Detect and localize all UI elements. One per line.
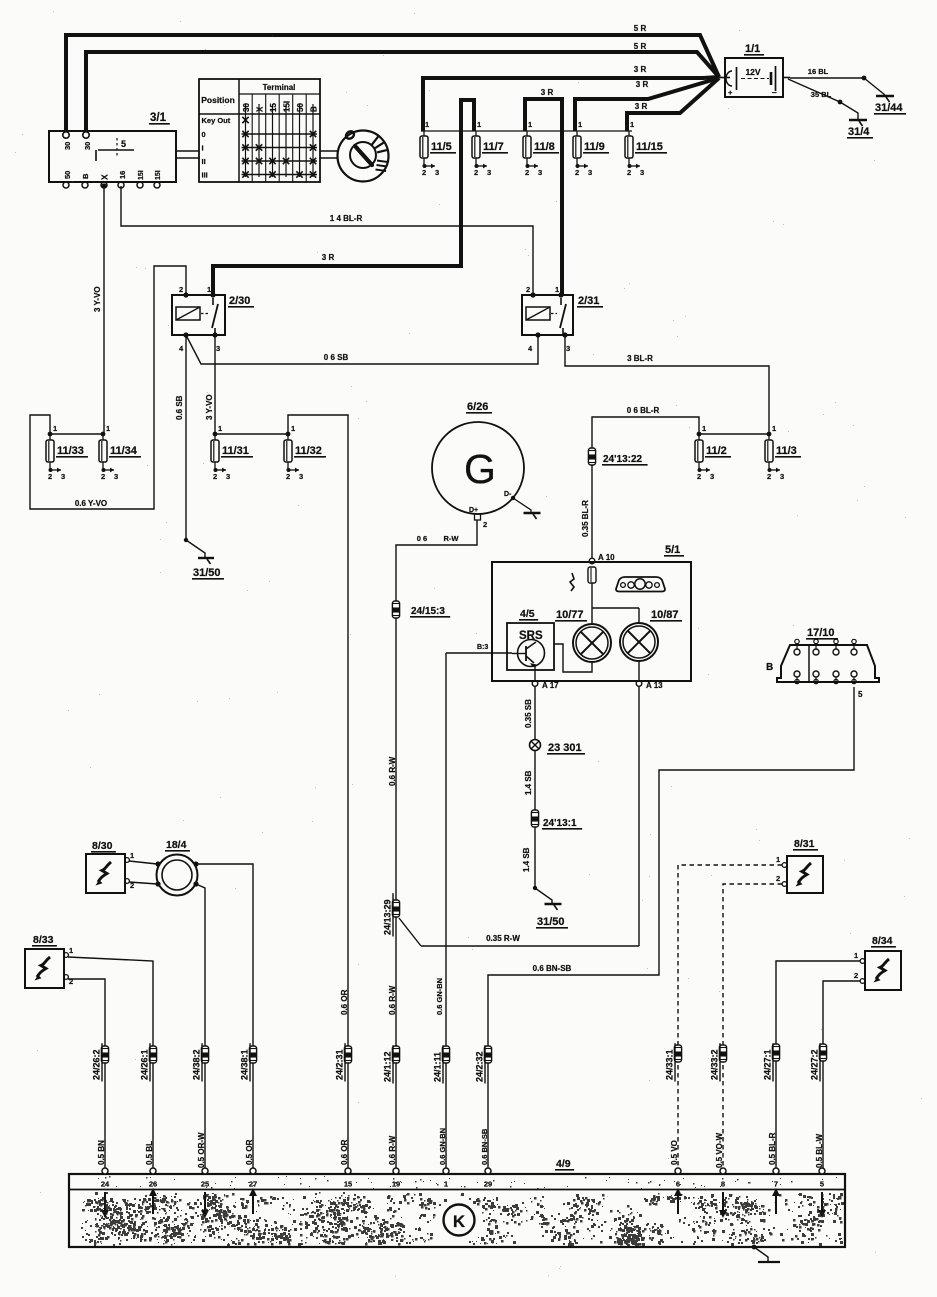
svg-text:3: 3 xyxy=(588,168,592,177)
svg-text:2: 2 xyxy=(697,472,701,481)
svg-text:3: 3 xyxy=(216,344,220,353)
svg-text:0 6 BL-R: 0 6 BL-R xyxy=(627,406,660,415)
svg-text:24/27:1: 24/27:1 xyxy=(763,1049,773,1080)
svg-text:24/26:1: 24/26:1 xyxy=(140,1049,150,1080)
svg-text:3: 3 xyxy=(640,168,644,177)
svg-text:2/30: 2/30 xyxy=(229,295,250,307)
svg-text:0.6 GN-BN: 0.6 GN-BN xyxy=(435,978,444,1015)
svg-text:G: G xyxy=(464,446,496,492)
svg-text:24'13:1: 24'13:1 xyxy=(543,818,577,829)
svg-text:24: 24 xyxy=(101,1180,110,1189)
svg-text:12V: 12V xyxy=(745,67,760,77)
svg-text:6: 6 xyxy=(676,1180,680,1189)
svg-text:8/34: 8/34 xyxy=(872,935,893,947)
svg-text:1/1: 1/1 xyxy=(745,43,760,55)
svg-text:2: 2 xyxy=(575,168,579,177)
svg-text:1.4 SB: 1.4 SB xyxy=(524,770,533,795)
svg-text:0.6 R-W: 0.6 R-W xyxy=(388,985,397,1015)
svg-text:1: 1 xyxy=(53,424,57,433)
svg-text:2: 2 xyxy=(48,472,52,481)
svg-text:0.35 BL-R: 0.35 BL-R xyxy=(581,500,590,537)
svg-text:24/15:3: 24/15:3 xyxy=(411,606,445,617)
svg-text:0: 0 xyxy=(202,130,206,139)
svg-text:15I: 15I xyxy=(283,101,292,112)
svg-text:A 17: A 17 xyxy=(542,681,559,690)
svg-text:24/13:29: 24/13:29 xyxy=(383,899,393,935)
svg-text:0.5 VO-W: 0.5 VO-W xyxy=(715,1132,724,1168)
svg-text:0.5 OR: 0.5 OR xyxy=(245,1139,254,1165)
svg-text:11/9: 11/9 xyxy=(584,141,605,153)
svg-text:0.6 BN-SB: 0.6 BN-SB xyxy=(533,964,572,973)
svg-text:2: 2 xyxy=(627,168,631,177)
svg-text:B:3: B:3 xyxy=(477,644,488,651)
svg-text:24/26:2: 24/26:2 xyxy=(92,1049,102,1080)
svg-text:2: 2 xyxy=(474,168,478,177)
svg-text:1 4 BL-R: 1 4 BL-R xyxy=(330,214,363,223)
svg-text:0.5 BL: 0.5 BL xyxy=(145,1141,154,1165)
svg-text:1: 1 xyxy=(130,851,134,860)
svg-text:3: 3 xyxy=(435,168,439,177)
svg-text:5: 5 xyxy=(858,690,863,699)
svg-text:50: 50 xyxy=(296,103,305,112)
svg-text:1: 1 xyxy=(425,120,429,129)
svg-text:1: 1 xyxy=(69,946,73,955)
svg-text:5 R: 5 R xyxy=(634,42,647,51)
svg-text:8/30: 8/30 xyxy=(92,840,113,852)
svg-text:Position: Position xyxy=(201,95,235,105)
svg-text:I: I xyxy=(202,144,204,153)
svg-text:5: 5 xyxy=(121,139,126,149)
svg-text:0.5 BL-R: 0.5 BL-R xyxy=(768,1132,777,1165)
svg-text:0.5 VO: 0.5 VO xyxy=(670,1140,679,1165)
svg-text:31/50: 31/50 xyxy=(193,567,221,579)
svg-text:1.4 SB: 1.4 SB xyxy=(522,847,531,872)
svg-text:1: 1 xyxy=(477,120,481,129)
svg-text:8: 8 xyxy=(721,1180,725,1189)
svg-text:31/50: 31/50 xyxy=(537,916,565,928)
svg-text:23 301: 23 301 xyxy=(548,742,582,754)
svg-text:0.6 GN-BN: 0.6 GN-BN xyxy=(438,1128,447,1165)
svg-text:31/44: 31/44 xyxy=(875,102,903,114)
svg-text:15I: 15I xyxy=(155,170,162,180)
svg-text:B: B xyxy=(310,106,319,112)
svg-text:B: B xyxy=(766,662,773,673)
svg-text:1: 1 xyxy=(106,424,110,433)
svg-text:0.6 R-W: 0.6 R-W xyxy=(388,1135,397,1165)
svg-text:A 10: A 10 xyxy=(598,553,615,562)
svg-text:24'13:22: 24'13:22 xyxy=(603,454,643,465)
svg-text:K: K xyxy=(453,1212,466,1231)
svg-text:X: X xyxy=(100,174,110,180)
svg-text:1: 1 xyxy=(218,424,222,433)
svg-text:0.35 SB: 0.35 SB xyxy=(524,699,533,728)
svg-text:II: II xyxy=(202,157,206,166)
svg-text:11/8: 11/8 xyxy=(534,141,555,153)
svg-text:0.5 OR-W: 0.5 OR-W xyxy=(197,1132,206,1168)
svg-text:A 13: A 13 xyxy=(646,681,663,690)
svg-text:3 R: 3 R xyxy=(541,88,554,97)
svg-text:0.6 OR: 0.6 OR xyxy=(340,1139,349,1165)
svg-text:31/4: 31/4 xyxy=(848,126,870,138)
svg-text:2: 2 xyxy=(526,285,530,294)
svg-text:2: 2 xyxy=(767,472,771,481)
svg-text:3: 3 xyxy=(61,472,65,481)
svg-text:0.6 OR: 0.6 OR xyxy=(340,989,349,1015)
svg-text:24/2:31: 24/2:31 xyxy=(335,1049,345,1080)
svg-text:2: 2 xyxy=(286,472,290,481)
svg-text:0.35 R-W: 0.35 R-W xyxy=(486,934,520,943)
svg-text:8/33: 8/33 xyxy=(33,934,54,946)
svg-text:III: III xyxy=(202,171,208,180)
svg-text:3 R: 3 R xyxy=(634,65,647,74)
svg-text:3 Y-VO: 3 Y-VO xyxy=(205,394,214,420)
svg-text:2: 2 xyxy=(422,168,426,177)
svg-text:3: 3 xyxy=(226,472,230,481)
svg-text:30: 30 xyxy=(63,142,72,150)
svg-text:3 BL-R: 3 BL-R xyxy=(627,354,653,363)
svg-text:3 R: 3 R xyxy=(636,80,649,89)
svg-text:0.5 BL-W: 0.5 BL-W xyxy=(815,1133,824,1168)
svg-text:3: 3 xyxy=(710,472,714,481)
svg-text:15: 15 xyxy=(269,103,278,112)
svg-text:3/1: 3/1 xyxy=(150,112,167,124)
svg-text:17/10: 17/10 xyxy=(807,627,835,639)
svg-text:24/1:12: 24/1:12 xyxy=(383,1051,393,1082)
svg-text:29: 29 xyxy=(484,1180,492,1189)
svg-text:D-: D- xyxy=(504,491,512,498)
svg-text:11/7: 11/7 xyxy=(483,141,504,153)
svg-text:2: 2 xyxy=(854,971,858,980)
svg-text:24/2:32: 24/2:32 xyxy=(475,1051,485,1082)
svg-text:Key Out: Key Out xyxy=(202,116,231,125)
svg-text:3 R: 3 R xyxy=(322,253,335,262)
svg-text:0 6: 0 6 xyxy=(417,534,427,543)
svg-text:26: 26 xyxy=(149,1180,157,1189)
svg-text:2: 2 xyxy=(101,472,105,481)
svg-text:1: 1 xyxy=(772,424,776,433)
svg-text:10/87: 10/87 xyxy=(651,609,679,621)
svg-text:24/33:1: 24/33:1 xyxy=(665,1049,675,1080)
svg-text:0.6 BN-SB: 0.6 BN-SB xyxy=(480,1128,489,1165)
svg-text:1: 1 xyxy=(854,951,858,960)
svg-text:3: 3 xyxy=(566,344,570,353)
svg-text:2: 2 xyxy=(483,520,487,529)
svg-text:4/5: 4/5 xyxy=(520,608,535,620)
svg-text:30: 30 xyxy=(83,142,92,150)
svg-text:1: 1 xyxy=(630,120,634,129)
svg-text:1: 1 xyxy=(444,1180,448,1189)
svg-text:0 6 SB: 0 6 SB xyxy=(324,353,349,362)
svg-text:Terminal: Terminal xyxy=(263,83,296,92)
svg-text:18/4: 18/4 xyxy=(166,839,187,851)
svg-text:24/27:2: 24/27:2 xyxy=(810,1049,820,1080)
svg-text:11/33: 11/33 xyxy=(57,445,84,457)
svg-text:11/2: 11/2 xyxy=(706,445,727,457)
svg-text:2/31: 2/31 xyxy=(578,295,599,307)
svg-text:19: 19 xyxy=(392,1180,400,1189)
svg-text:R-W: R-W xyxy=(444,534,460,543)
svg-text:1: 1 xyxy=(528,120,532,129)
svg-text:10/77: 10/77 xyxy=(556,609,584,621)
svg-text:–: – xyxy=(772,87,777,97)
svg-text:24/38:1: 24/38:1 xyxy=(240,1049,250,1080)
svg-text:0.6 SB: 0.6 SB xyxy=(175,395,184,420)
svg-text:2: 2 xyxy=(776,874,780,883)
svg-text:0.6 Y-VO: 0.6 Y-VO xyxy=(75,499,107,508)
svg-text:15I: 15I xyxy=(138,170,145,180)
svg-text:27: 27 xyxy=(249,1180,257,1189)
svg-text:50: 50 xyxy=(63,171,72,179)
svg-text:11/3: 11/3 xyxy=(776,445,797,457)
svg-text:24/33:2: 24/33:2 xyxy=(710,1049,720,1080)
svg-text:B: B xyxy=(81,173,90,179)
svg-text:15: 15 xyxy=(344,1180,352,1189)
svg-text:16 BL: 16 BL xyxy=(808,67,829,76)
svg-text:11/34: 11/34 xyxy=(110,445,138,457)
svg-text:7: 7 xyxy=(774,1180,778,1189)
svg-text:4/9: 4/9 xyxy=(556,1158,571,1170)
svg-text:+: + xyxy=(728,88,733,97)
svg-text:1: 1 xyxy=(702,424,706,433)
svg-text:5 R: 5 R xyxy=(634,24,647,33)
svg-text:5: 5 xyxy=(820,1180,824,1189)
svg-text:3: 3 xyxy=(487,168,491,177)
svg-text:2: 2 xyxy=(213,472,217,481)
svg-text:3: 3 xyxy=(114,472,118,481)
svg-text:3 Y-VO: 3 Y-VO xyxy=(93,286,102,312)
svg-text:25: 25 xyxy=(201,1180,209,1189)
svg-text:8/31: 8/31 xyxy=(794,838,815,850)
svg-text:11/5: 11/5 xyxy=(431,141,452,153)
svg-text:5/1: 5/1 xyxy=(665,544,680,556)
svg-text:0.6 R-W: 0.6 R-W xyxy=(388,756,397,786)
svg-text:1: 1 xyxy=(776,855,780,864)
svg-text:24/1:11: 24/1:11 xyxy=(433,1052,443,1082)
svg-text:35 BL: 35 BL xyxy=(811,90,832,99)
svg-text:11/32: 11/32 xyxy=(295,445,322,457)
svg-text:D+: D+ xyxy=(469,507,478,514)
svg-text:3: 3 xyxy=(538,168,542,177)
svg-text:1: 1 xyxy=(207,285,211,294)
svg-text:6/26: 6/26 xyxy=(467,401,488,413)
svg-text:1: 1 xyxy=(291,424,295,433)
svg-text:11/31: 11/31 xyxy=(222,445,249,457)
svg-text:0.5 BN: 0.5 BN xyxy=(97,1140,106,1165)
svg-text:16: 16 xyxy=(118,171,127,179)
svg-text:11/15: 11/15 xyxy=(636,141,663,153)
svg-text:2: 2 xyxy=(179,285,183,294)
svg-text:3: 3 xyxy=(299,472,303,481)
svg-text:1: 1 xyxy=(578,120,582,129)
svg-text:X: X xyxy=(256,106,265,112)
svg-text:1: 1 xyxy=(555,285,559,294)
svg-text:3: 3 xyxy=(780,472,784,481)
svg-text:30: 30 xyxy=(242,103,251,112)
svg-text:24/38:2: 24/38:2 xyxy=(192,1049,202,1080)
svg-text:3 R: 3 R xyxy=(635,102,648,111)
svg-text:2: 2 xyxy=(525,168,529,177)
